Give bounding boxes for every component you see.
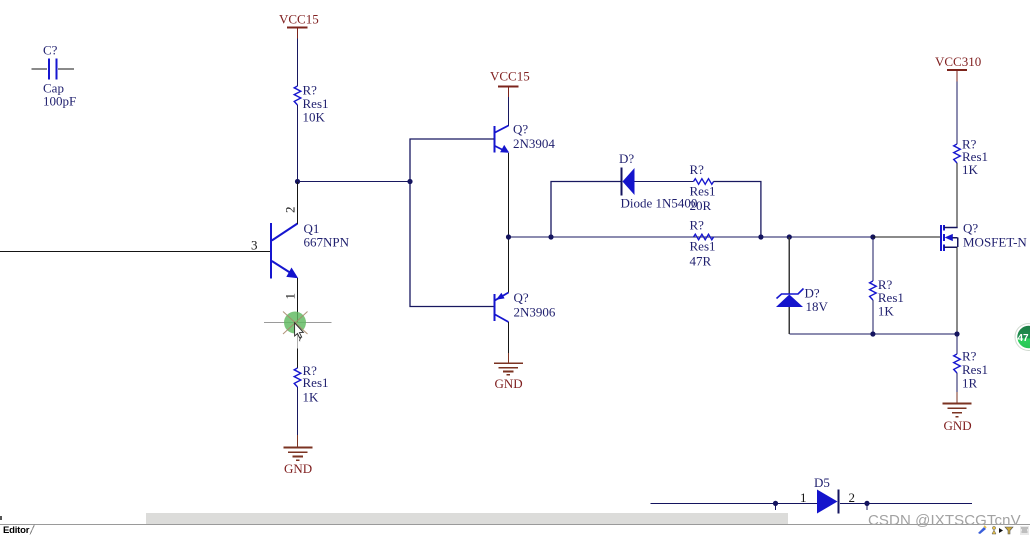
zener D2 triangle — [776, 295, 803, 308]
transistor Q1 emitter diagonal — [272, 261, 293, 275]
transistor Q2 collector diagonal — [495, 126, 509, 133]
wire R6 to MOSFET drain — [956, 163, 958, 228]
svg-text:2: 2 — [849, 490, 856, 505]
scrollbar gray band — [146, 513, 788, 524]
svg-text:Q?: Q? — [513, 122, 528, 137]
transistor Q2 emitter diagonal — [495, 146, 503, 150]
wire R7 to GND — [956, 373, 958, 392]
resistor R7 zigzag (1R) — [954, 354, 961, 373]
resistor R6 zigzag (1K top right) — [954, 144, 961, 163]
wire Q2 emitter to node B — [508, 153, 510, 237]
pencil icon — [978, 527, 986, 534]
transistor Q1 emitter pin 1 — [297, 278, 299, 322]
svg-text:MOSFET-N: MOSFET-N — [963, 235, 1027, 250]
diode D5 right wire — [840, 502, 972, 504]
svg-text:1K: 1K — [303, 390, 320, 405]
wire Q3 collector to GND — [508, 322, 510, 353]
svg-text:3: 3 — [251, 238, 258, 253]
cursor X mark diagonals — [283, 312, 308, 335]
junction dot on bus — [407, 179, 412, 184]
person icon — [992, 526, 995, 529]
floating green badge 47 — [1008, 315, 1030, 360]
transistor Q3 collector diagonal — [495, 315, 509, 323]
node A junction dot — [295, 179, 300, 184]
wire R5 bottom — [872, 300, 874, 334]
svg-text:R?: R? — [690, 218, 705, 233]
svg-text:2N3906: 2N3906 — [514, 305, 556, 320]
junction dot diode branch — [548, 234, 553, 239]
mosfet Q4 bulk stub — [953, 237, 958, 239]
bottom right icons — [960, 525, 1030, 535]
resistor R2 zigzag — [294, 368, 301, 387]
wire to R7 — [956, 334, 958, 354]
power port VCC15 (middle) — [490, 69, 530, 98]
junction dot source/bottom rail — [954, 331, 959, 336]
transistor Q2 base bar — [493, 126, 495, 153]
Editor tab slant — [0, 524, 45, 535]
resistor R5 zigzag (1K) — [870, 281, 877, 300]
transistor Q1 base pin 3 lead — [0, 251, 270, 253]
wire zener to bottom rail — [788, 307, 790, 334]
ground GND3 lead — [956, 392, 958, 403]
resistor R1 zigzag — [294, 86, 301, 105]
svg-text:C?: C? — [43, 43, 58, 58]
zener D2 bar — [777, 289, 804, 299]
left edge tick — [0, 516, 2, 520]
status separator line — [0, 524, 1030, 525]
svg-text:667NPN: 667NPN — [304, 235, 350, 250]
far right char box — [1020, 526, 1029, 535]
junction dot R5 top — [870, 234, 875, 239]
diode D5 cathode bar — [838, 490, 840, 514]
svg-text:18V: 18V — [806, 299, 829, 314]
svg-text:R?: R? — [690, 162, 705, 177]
svg-text:47: 47 — [1018, 333, 1030, 344]
junction dot R3 branch — [758, 234, 763, 239]
transistor Q3 emitter arrow (PNP, points into base) — [496, 293, 505, 300]
wire MOSFET source down — [956, 247, 958, 334]
play triangle — [999, 528, 1003, 533]
svg-text:2N3904: 2N3904 — [513, 136, 555, 151]
mouse pointer arrow — [295, 323, 304, 338]
svg-text:GND: GND — [944, 418, 972, 433]
svg-text:Res1: Res1 — [690, 239, 716, 254]
power port VCC310 — [935, 54, 981, 82]
svg-text:Res1: Res1 — [303, 375, 329, 390]
wire R3 to right corner — [714, 182, 761, 238]
ground GND2 lead — [508, 353, 510, 363]
cursor crosshair horizontal — [264, 322, 332, 324]
svg-text:1: 1 — [800, 490, 807, 505]
transistor Q2 base lead — [410, 138, 494, 140]
power port VCC15 (left) — [279, 12, 319, 39]
ground GND1 bars — [284, 448, 313, 461]
svg-text:VCC15: VCC15 — [279, 12, 319, 27]
svg-text:20R: 20R — [690, 198, 712, 213]
transistor Q1 collector diagonal — [272, 224, 298, 241]
transistor Q1 emitter arrow — [286, 268, 298, 279]
wire R2 to GND — [297, 387, 299, 435]
diode D5 junction dot right — [864, 501, 869, 510]
svg-text:1R: 1R — [962, 376, 978, 391]
funnel icon — [1005, 527, 1013, 534]
svg-text:100pF: 100pF — [43, 94, 76, 109]
wire diode to R3 — [635, 181, 694, 183]
wire VCC15 to Q2 collector — [508, 97, 510, 126]
svg-text:Diode 1N5400: Diode 1N5400 — [621, 196, 698, 211]
ground GND3 bars — [943, 404, 972, 417]
wire zener branch down — [788, 237, 790, 294]
transistor Q1 base bar — [270, 223, 272, 279]
mosfet Q4 bulk arrow — [945, 234, 953, 241]
diode D1 triangle — [623, 168, 635, 195]
Editor tab — [3, 525, 29, 535]
svg-text:GND: GND — [495, 376, 523, 391]
wire node A to bus — [298, 181, 411, 183]
svg-text:VCC15: VCC15 — [490, 69, 530, 84]
svg-text:D5: D5 — [814, 475, 830, 490]
mosfet Q4 gate lead — [873, 236, 941, 238]
diode D5 left wire — [651, 502, 818, 504]
wire bottom rail — [789, 333, 957, 335]
diode D1 cathode bar — [621, 168, 623, 196]
svg-text:47R: 47R — [690, 254, 712, 269]
diode D5 junction dot left — [773, 501, 778, 510]
svg-text:D?: D? — [619, 151, 634, 166]
svg-text:10K: 10K — [303, 110, 326, 125]
transistor Q3 emitter diagonal — [495, 293, 509, 301]
junction dot zener branch — [787, 234, 792, 239]
svg-text:Q?: Q? — [514, 290, 529, 305]
svg-text:Q?: Q? — [963, 221, 978, 236]
capacitor C1 leads — [32, 68, 75, 70]
transistor Q2 emitter arrow — [500, 145, 509, 153]
svg-text:2: 2 — [283, 207, 298, 214]
wire Q3 emitter to node B — [508, 237, 510, 293]
wire node B main horizontal — [509, 236, 942, 238]
resistor R3 zigzag — [694, 179, 714, 185]
svg-text:VCC310: VCC310 — [935, 54, 981, 69]
ground GND2 bars — [494, 363, 523, 375]
mosfet Q4 gate bar — [940, 225, 942, 251]
svg-text:Res1: Res1 — [690, 184, 716, 199]
wire VCC310 to R6 — [956, 82, 958, 145]
ground GND1 lead — [297, 435, 299, 447]
mosfet Q4 drain stub — [944, 227, 958, 229]
cursor crosshair vertical — [297, 334, 299, 349]
wire VCC15 to R1 — [297, 39, 299, 87]
node B junction dot — [506, 234, 511, 239]
resistor R4 zigzag (47R) — [694, 234, 714, 240]
transistor Q3 base bar — [493, 294, 495, 321]
diode D5 triangle — [817, 490, 838, 514]
mouse pointer tail squiggle — [299, 337, 300, 341]
wire cursor node to R2 — [297, 349, 299, 369]
wire R5 top — [872, 237, 874, 281]
svg-text:1K: 1K — [878, 304, 895, 319]
capacitor C1 plates — [49, 59, 57, 80]
mosfet Q4 source stub — [944, 246, 958, 248]
transistor Q1 collector pin 2 — [297, 182, 299, 224]
junction dot R5 bottom — [870, 331, 875, 336]
mosfet Q4 channel dashes — [943, 225, 945, 251]
mosfet Q4 source-bulk link — [957, 238, 959, 248]
svg-text:1K: 1K — [962, 162, 979, 177]
svg-text:1: 1 — [283, 293, 298, 300]
bus vertical wire — [410, 139, 494, 307]
svg-text:GND: GND — [284, 461, 312, 476]
wire diode branch up — [551, 182, 621, 238]
CSDN watermark — [868, 512, 1021, 529]
wire R1 to node A — [297, 105, 299, 182]
cursor highlight green circle — [284, 312, 306, 334]
